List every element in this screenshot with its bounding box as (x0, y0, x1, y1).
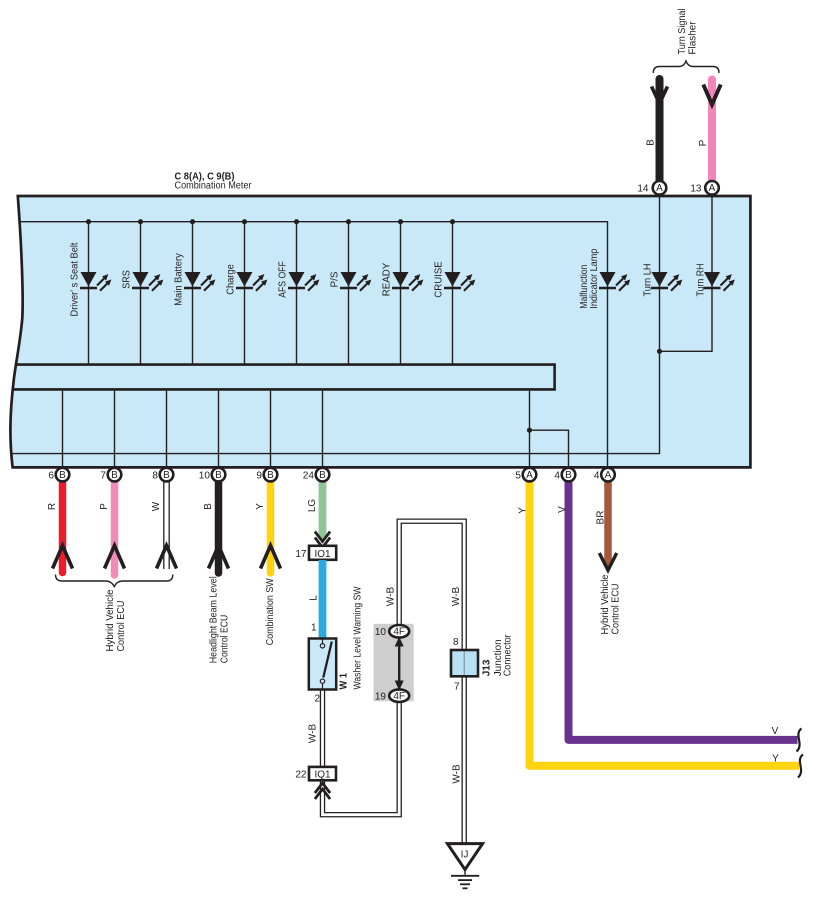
svg-text:Turn Signal: Turn Signal (677, 9, 688, 55)
svg-text:J13: J13 (482, 659, 493, 676)
node dot (527, 428, 532, 433)
svg-text:IJ: IJ (461, 850, 469, 861)
svg-text:B: B (319, 470, 326, 481)
svg-text:W-B: W-B (451, 764, 462, 784)
svg-text:Hybrid Vehicle: Hybrid Vehicle (600, 574, 611, 634)
pin 14(A) (637, 181, 666, 195)
svg-text:9: 9 (256, 471, 262, 482)
svg-text:Indicator Lamp: Indicator Lamp (589, 248, 600, 308)
svg-text:Turn LH: Turn LH (643, 264, 654, 297)
combination meter box C8(A) C9(B) (10, 196, 750, 467)
LED Driver's Seat Belt (80, 272, 113, 293)
svg-text:B: B (565, 470, 572, 481)
wire P from turn signal flasher (708, 80, 716, 183)
wire W-B washer sw to IQ1 (320, 690, 325, 767)
svg-text:A: A (656, 183, 663, 194)
svg-text:10: 10 (199, 471, 211, 482)
pin 10(B) (199, 468, 226, 482)
svg-text:Charge: Charge (226, 264, 237, 295)
svg-text:Connector: Connector (503, 634, 514, 677)
svg-text:Turn RH: Turn RH (696, 264, 707, 297)
svg-text:Flasher: Flasher (688, 21, 699, 55)
wire turn RH from pin 13(A) joining LH (660, 196, 713, 351)
LED Turn RH (704, 272, 737, 293)
svg-text:19: 19 (375, 692, 387, 703)
svg-text:SRS: SRS (122, 270, 133, 289)
connector 10(4F) (389, 625, 409, 638)
svg-text:W-B: W-B (386, 587, 397, 607)
svg-text:B: B (646, 139, 657, 146)
svg-text:Washer Level Warning SW: Washer Level Warning SW (353, 586, 364, 689)
svg-text:Y: Y (772, 754, 779, 765)
svg-text:8: 8 (152, 471, 158, 482)
pin 9(B) (256, 468, 277, 482)
svg-text:CRUISE: CRUISE (434, 261, 445, 298)
svg-text:8: 8 (453, 637, 459, 648)
node dot turn junction (657, 349, 662, 354)
wire LG light green (319, 480, 327, 536)
svg-text:14: 14 (637, 184, 649, 195)
svg-text:B: B (163, 470, 170, 481)
wire V violet long (569, 480, 798, 740)
internal connector bar (12, 365, 554, 390)
pin column wires below bar (63, 391, 323, 466)
LED column wires (89, 222, 453, 364)
svg-text:B: B (59, 470, 66, 481)
svg-text:Driver' s Seat Belt: Driver' s Seat Belt (70, 242, 81, 316)
LED READY (392, 272, 425, 293)
node dots on bus (86, 219, 455, 224)
svg-text:W-B: W-B (307, 724, 318, 744)
svg-text:6: 6 (48, 471, 54, 482)
svg-text:P: P (99, 503, 110, 510)
connector 17 IO1 (309, 546, 336, 560)
wire B black (215, 480, 223, 573)
svg-text:P: P (698, 139, 709, 146)
washer level warning switch W 1 (309, 639, 336, 690)
svg-text:B: B (203, 503, 214, 510)
svg-text:Control ECU: Control ECU (611, 584, 622, 635)
svg-text:B: B (215, 470, 222, 481)
svg-text:A: A (709, 183, 716, 194)
svg-text:10: 10 (375, 627, 387, 638)
pin 8(B) (152, 468, 173, 482)
pin 6(B) (48, 468, 69, 482)
pin 4(B) (554, 468, 575, 482)
wire R red (59, 480, 67, 573)
ground IJ (447, 844, 482, 870)
svg-text:2: 2 (314, 694, 320, 705)
arrow between 4F connectors (398, 642, 400, 685)
svg-text:Combination Meter: Combination Meter (175, 181, 253, 192)
break symbol V wire (797, 729, 802, 752)
svg-text:V: V (557, 506, 568, 513)
break symbol Y wire (798, 755, 803, 778)
connector 22 IQ1 (309, 767, 336, 780)
svg-text:B: B (267, 470, 274, 481)
svg-text:W: W (151, 501, 162, 511)
svg-text:Y: Y (518, 507, 529, 514)
wire to pin 5(A) (529, 391, 531, 466)
svg-text:24: 24 (303, 471, 315, 482)
LED Charge (236, 272, 269, 293)
wire Y yellow (267, 480, 275, 573)
svg-text:5: 5 (515, 471, 521, 482)
wire P pink (111, 480, 119, 575)
svg-text:R: R (47, 503, 58, 510)
wire Y yellow long (530, 480, 800, 766)
wire W-B 10(4F) loop to J13 and ground (399, 521, 464, 845)
pin 7(B) (100, 468, 121, 482)
pin 4(A) (594, 468, 615, 482)
svg-text:W-B: W-B (451, 587, 462, 607)
wire W white (163, 480, 165, 569)
svg-text:AFS OFF: AFS OFF (278, 261, 289, 298)
svg-text:Control ECU: Control ECU (116, 601, 127, 652)
svg-text:A: A (526, 470, 533, 481)
svg-text:LG: LG (307, 499, 318, 513)
brace hybrid vehicle control ecu (56, 575, 173, 587)
svg-text:Main Battery: Main Battery (174, 253, 185, 306)
connector 19(4F) (389, 689, 409, 702)
svg-text:1: 1 (311, 623, 317, 634)
LED Turn LH (651, 272, 684, 293)
pin 24(B) (303, 468, 330, 482)
svg-text:Control ECU: Control ECU (220, 615, 231, 664)
svg-text:7: 7 (454, 682, 460, 693)
svg-text:Combination SW: Combination SW (265, 578, 276, 645)
wire L blue (319, 560, 327, 639)
svg-text:4: 4 (554, 471, 560, 482)
LED P/S (340, 272, 373, 293)
bus wire top with corner down to pin 4(A) (20, 222, 608, 466)
junction connector J13 (451, 650, 478, 676)
svg-text:A: A (605, 470, 612, 481)
LED Malfunction Indicator Lamp (599, 272, 632, 293)
LED SRS (132, 272, 165, 293)
svg-text:B: B (111, 470, 118, 481)
svg-text:P/S: P/S (330, 271, 341, 287)
LED AFS OFF (288, 272, 321, 293)
svg-text:IO1: IO1 (314, 549, 331, 560)
svg-text:4F: 4F (393, 627, 405, 638)
svg-text:Headlight Beam Level: Headlight Beam Level (209, 576, 220, 663)
svg-text:V: V (772, 726, 779, 737)
gray junction block 4F (374, 624, 414, 702)
wire B from turn signal flasher (656, 79, 664, 182)
svg-text:W 1: W 1 (339, 673, 350, 690)
wire W-B IQ1 to 19(4F) (323, 701, 400, 815)
svg-text:L: L (309, 595, 320, 601)
wire branch to pin 4(B) (530, 430, 569, 466)
wire turn LH from pin 14(A) down and left to torn edge (12, 196, 660, 454)
svg-text:17: 17 (295, 549, 307, 560)
svg-text:13: 13 (690, 184, 702, 195)
pin 13(A) (690, 181, 718, 195)
svg-text:IQ1: IQ1 (314, 769, 331, 780)
pin 5(A) (515, 468, 536, 482)
wire BR brown (604, 480, 612, 564)
svg-text:7: 7 (100, 471, 106, 482)
LED Main Battery (184, 272, 217, 293)
svg-text:4: 4 (594, 471, 600, 482)
svg-text:4F: 4F (393, 691, 405, 702)
svg-text:22: 22 (295, 770, 307, 781)
svg-text:Y: Y (255, 503, 266, 510)
svg-text:Hybrid Vehicle: Hybrid Vehicle (105, 589, 116, 651)
svg-text:BR: BR (596, 511, 607, 525)
turn signal flasher brace (653, 61, 719, 73)
svg-text:READY: READY (382, 262, 393, 296)
LED CRUISE (444, 272, 477, 293)
